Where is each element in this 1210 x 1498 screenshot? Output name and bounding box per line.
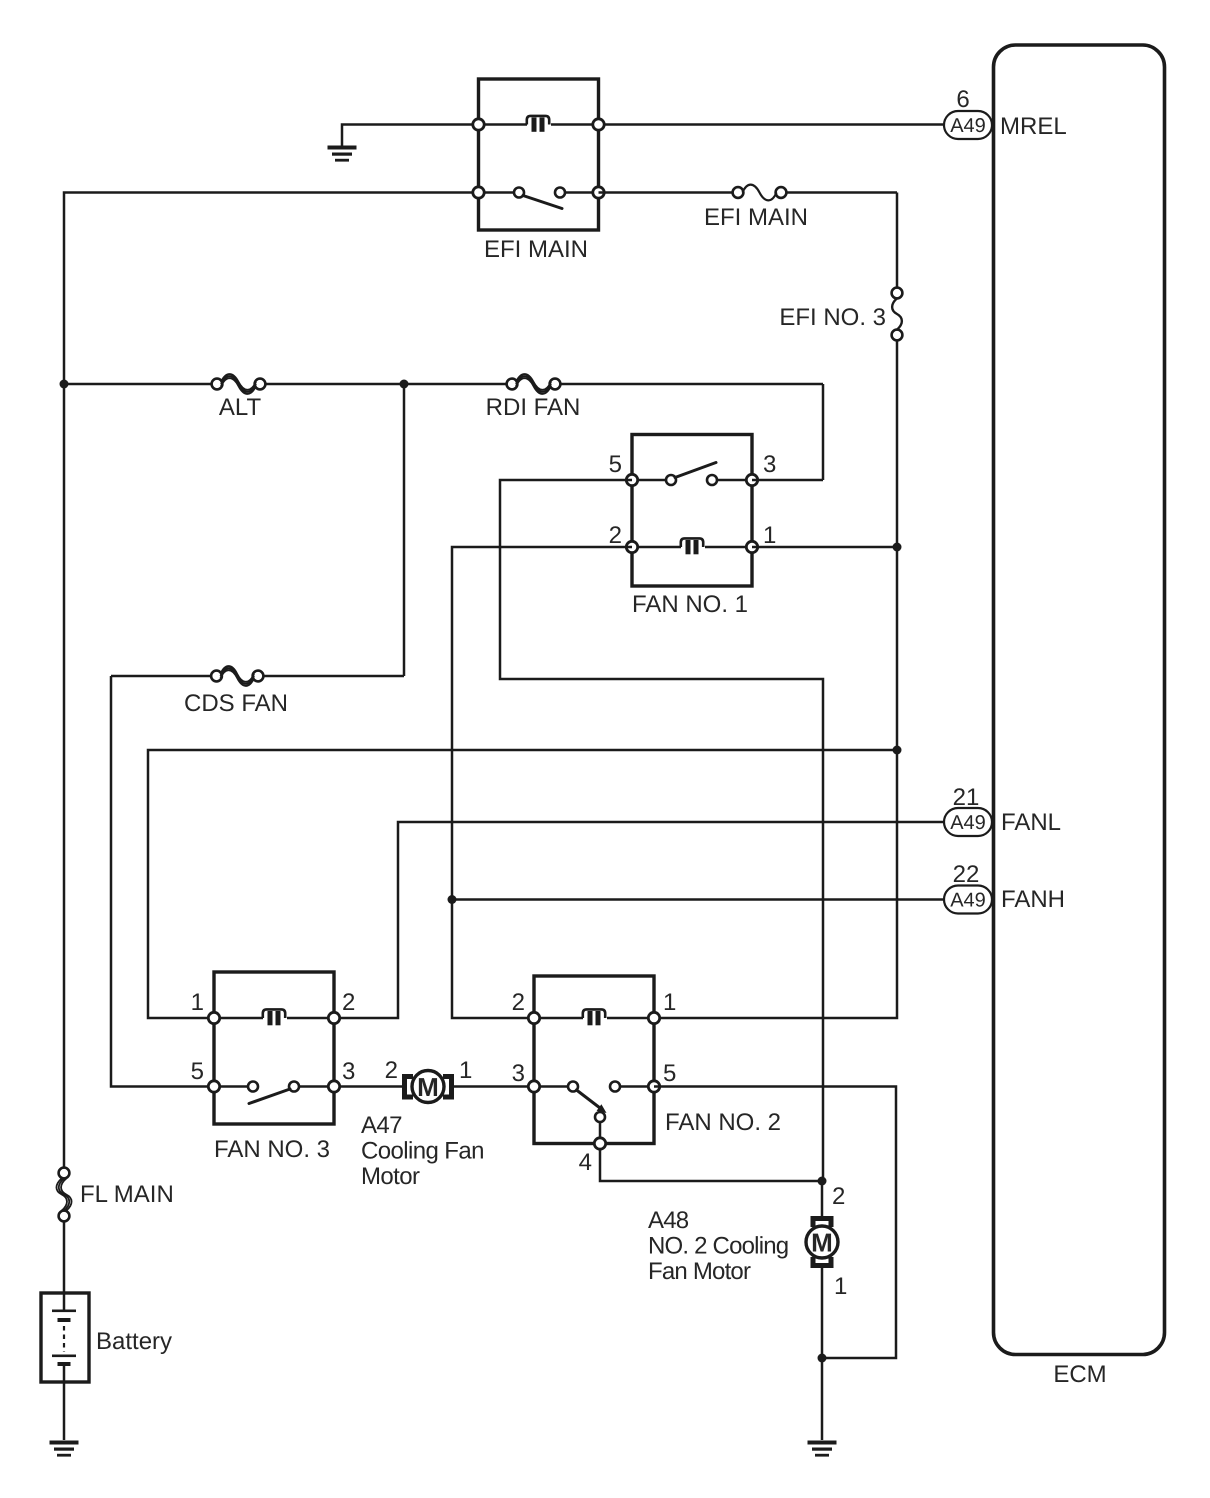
svg-text:Cooling Fan: Cooling Fan: [361, 1138, 484, 1165]
node FANL: [1001, 809, 1061, 836]
relay FAN NO.3: [214, 972, 334, 1124]
relay FAN NO.1 switch: [666, 463, 717, 486]
relay FAN NO.2 terminals: [528, 1012, 659, 1149]
wire relay switch left to battery line: [64, 193, 479, 1168]
wire CDS FAN row: [111, 384, 404, 1087]
pin 1 label A48: [834, 1273, 847, 1300]
svg-text:2: 2: [512, 989, 525, 1016]
svg-text:EFI MAIN: EFI MAIN: [704, 204, 808, 231]
wire FAN NO.1 pin 3 to RDI FAN branch: [752, 479, 823, 482]
relay EFI MAIN coil: [527, 116, 549, 132]
wire EFI NO.3 down to FAN NO.2 pin 1: [660, 340, 897, 1018]
motor A47 Cooling Fan Motor: [402, 1071, 454, 1103]
svg-text:5: 5: [663, 1060, 676, 1087]
fuse RDI FAN: [507, 374, 561, 394]
relay FAN NO.1 terminals: [626, 474, 757, 552]
svg-text:MREL: MREL: [1000, 113, 1067, 140]
connector A49 pin 22: [944, 886, 992, 914]
wire FL MAIN to battery: [63, 1221, 66, 1310]
label RDI FAN fuse: [486, 394, 581, 421]
label ECM: [1053, 1361, 1106, 1388]
svg-text:Motor: Motor: [361, 1163, 420, 1190]
node MREL: [1000, 113, 1067, 140]
svg-text:1: 1: [459, 1057, 472, 1084]
fuse EFI MAIN: [733, 185, 787, 201]
wire motor A47 to FAN NO.2 pin 3: [454, 1085, 528, 1088]
ground A48 motor: [808, 1441, 837, 1457]
wire motor A48 to ground: [821, 1268, 824, 1440]
svg-text:5: 5: [191, 1058, 204, 1085]
battery: [41, 1293, 89, 1382]
wire FAN NO.1 pin 5 down to A48 motor branch: [500, 480, 823, 1181]
pin 3 label FAN NO.2: [512, 1060, 525, 1087]
svg-text:1: 1: [834, 1273, 847, 1300]
svg-text:1: 1: [663, 989, 676, 1016]
svg-text:2: 2: [342, 989, 355, 1016]
svg-text:2: 2: [832, 1183, 845, 1210]
label CDS FAN fuse: [184, 690, 288, 717]
ground top-left: [328, 146, 357, 162]
wire ALT RDI FAN row: [64, 384, 823, 480]
relay FAN NO.3 terminals: [208, 1012, 339, 1092]
wire FAN NO.2 pin 4 to A48 motor: [600, 1149, 822, 1181]
label FAN NO. 3: [214, 1136, 330, 1163]
wire relay switch right to EFI MAIN fuse and EFI NO.3: [599, 193, 898, 289]
svg-text:2: 2: [609, 522, 622, 549]
svg-text:ECM: ECM: [1053, 1361, 1106, 1388]
svg-text:3: 3: [763, 451, 776, 478]
relay FAN NO.2: [534, 976, 654, 1144]
fusible link FL MAIN: [56, 1168, 71, 1222]
label EFI MAIN fuse: [704, 204, 808, 231]
connector A49 pin 6: [944, 111, 992, 139]
fuse CDS FAN: [211, 666, 263, 686]
relay EFI MAIN terminals: [473, 119, 604, 198]
svg-text:Battery: Battery: [96, 1328, 172, 1355]
label FL MAIN fusible link: [80, 1181, 174, 1208]
label EFI NO. 3 fuse: [779, 304, 886, 331]
wire FAN NO.3 pin 3 to motor A47: [340, 1085, 402, 1088]
svg-text:RDI FAN: RDI FAN: [486, 394, 581, 421]
pin 3 label FAN NO.1: [763, 451, 776, 478]
pin 2 label A47: [385, 1057, 398, 1084]
relay FAN NO.1 coil: [681, 538, 703, 554]
pin 1 label FAN NO.1: [763, 522, 776, 549]
pin 21 label A49: [953, 784, 980, 811]
svg-text:FANH: FANH: [1001, 886, 1065, 913]
svg-text:FAN NO. 3: FAN NO. 3: [214, 1136, 330, 1163]
svg-text:A47: A47: [361, 1112, 402, 1139]
node junction battery line / ALT: [60, 380, 69, 389]
label A47 Cooling Fan Motor: [361, 1112, 484, 1190]
pin 1 label FAN NO.2: [663, 989, 676, 1016]
label Battery: [96, 1328, 172, 1355]
node junction FANH branch: [448, 895, 457, 904]
relay FAN NO.3 switch: [248, 1082, 299, 1104]
svg-text:3: 3: [512, 1060, 525, 1087]
wire branch to FAN NO.3 pin 1: [148, 750, 897, 1018]
ground battery: [50, 1441, 79, 1457]
svg-text:2: 2: [385, 1057, 398, 1084]
pin 4 label FAN NO.2: [579, 1149, 592, 1176]
motor A48 NO.2 Cooling Fan Motor: [806, 1181, 838, 1268]
label EFI MAIN relay: [484, 236, 588, 263]
node junction motor ground / pin5 branch: [818, 1354, 827, 1363]
ECM box: [994, 45, 1165, 1355]
relay FAN NO.1: [632, 435, 752, 587]
svg-text:FAN NO. 2: FAN NO. 2: [665, 1109, 781, 1136]
pin 6 label A49: [956, 86, 969, 113]
node junction ALT / CDS FAN branch: [400, 380, 409, 389]
svg-text:4: 4: [579, 1149, 592, 1176]
svg-text:FANL: FANL: [1001, 809, 1061, 836]
svg-text:A48: A48: [648, 1207, 689, 1234]
pin 1 label A47: [459, 1057, 472, 1084]
svg-text:1: 1: [763, 522, 776, 549]
wire FANH from junction: [452, 898, 944, 901]
svg-text:M: M: [417, 1072, 439, 1102]
label FAN NO. 2: [665, 1109, 781, 1136]
wire relay coil left to ground: [342, 125, 479, 147]
wire FAN NO.1 pin 2 down to FAN NO.2 pin 2: [452, 547, 632, 1018]
svg-text:6: 6: [956, 86, 969, 113]
svg-text:A49: A49: [950, 115, 986, 137]
pin 5 label FAN NO.3: [191, 1058, 204, 1085]
svg-text:1: 1: [191, 989, 204, 1016]
relay EFI MAIN: [479, 79, 599, 230]
wire battery to ground: [63, 1366, 66, 1440]
svg-text:FAN NO. 1: FAN NO. 1: [632, 591, 748, 618]
svg-text:A49: A49: [950, 890, 986, 912]
relay EFI MAIN switch: [514, 188, 565, 209]
svg-text:FL MAIN: FL MAIN: [80, 1181, 174, 1208]
fuse ALT: [212, 374, 266, 394]
relay FAN NO.3 coil: [263, 1009, 285, 1025]
wire FAN NO.2 pin 5 to ground branch: [654, 1087, 896, 1359]
connector A49 pin 21: [944, 808, 992, 836]
label FAN NO. 1: [632, 591, 748, 618]
pin 1 label FAN NO.3: [191, 989, 204, 1016]
node junction EFI NO.3 / CDS branch: [893, 746, 902, 755]
pin 2 label FAN NO.1: [609, 522, 622, 549]
svg-text:5: 5: [609, 451, 622, 478]
pin 2 label FAN NO.3: [342, 989, 355, 1016]
svg-text:M: M: [811, 1228, 833, 1258]
svg-text:22: 22: [953, 861, 980, 888]
pin 3 label FAN NO.3: [342, 1058, 355, 1085]
node junction pin4 / motor A48: [818, 1177, 827, 1186]
node junction EFI NO.3 / FAN NO.1 pin 1: [893, 543, 902, 552]
svg-text:CDS FAN: CDS FAN: [184, 690, 288, 717]
pin 22 label A49: [953, 861, 980, 888]
wire FAN NO.1 pin 1 to EFI NO.3 line: [752, 546, 897, 549]
fuse EFI NO. 3: [892, 288, 903, 341]
relay FAN NO.2 coil: [583, 1009, 605, 1025]
svg-text:21: 21: [953, 784, 980, 811]
svg-text:ALT: ALT: [219, 394, 262, 421]
svg-text:EFI MAIN: EFI MAIN: [484, 236, 588, 263]
label A48 NO. 2 Cooling Fan Motor: [648, 1207, 788, 1285]
svg-text:3: 3: [342, 1058, 355, 1085]
svg-text:NO. 2 Cooling: NO. 2 Cooling: [648, 1233, 788, 1260]
wire FANL to FAN NO.3 pin 2: [340, 822, 944, 1018]
pin 2 label FAN NO.2: [512, 989, 525, 1016]
pin 5 label FAN NO.1: [609, 451, 622, 478]
svg-text:EFI NO. 3: EFI NO. 3: [779, 304, 886, 331]
svg-text:Fan Motor: Fan Motor: [648, 1258, 751, 1285]
pin 5 label FAN NO.2: [663, 1060, 676, 1087]
label ALT fuse: [219, 394, 262, 421]
svg-text:A49: A49: [950, 812, 986, 834]
wire MREL from relay coil to A49: [599, 123, 945, 126]
node FANH: [1001, 886, 1065, 913]
pin 2 label A48: [832, 1183, 845, 1210]
relay FAN NO.2 switch: [568, 1082, 620, 1139]
